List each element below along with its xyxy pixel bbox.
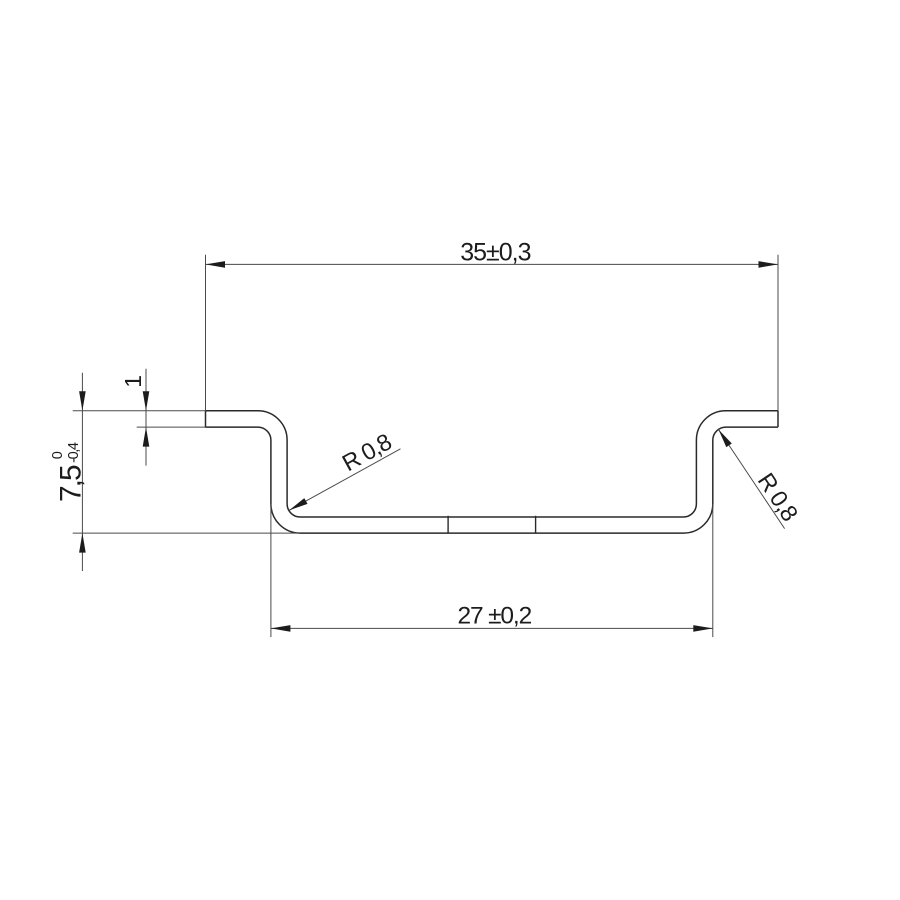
dimension 1 : upper arrowhead (points down at top face) bbox=[143, 391, 150, 411]
slot edge tick left bbox=[447, 516, 449, 534]
dimension 27 ±0,2 : right arrowhead bbox=[693, 625, 713, 632]
svg-text:27 ±0,2: 27 ±0,2 bbox=[458, 603, 532, 630]
dimension 7,5 0/-0,4 : rotated text with tolerance bbox=[50, 442, 88, 502]
dimension 1 : dimension line bbox=[145, 369, 147, 466]
dimension 27 ±0,2 : right extension line bbox=[712, 504, 714, 637]
dimension 35±0,3 : right extension line bbox=[777, 255, 779, 411]
dimension 27 ±0,2 : dimension line bbox=[271, 627, 713, 629]
dimension 35±0,3 : right arrowhead bbox=[759, 261, 779, 268]
dimension 27 ±0,2 : left arrowhead bbox=[271, 625, 291, 632]
radius leader R 0,8 left : leader line bbox=[289, 449, 400, 510]
left flange end cap bbox=[205, 411, 207, 427]
dimension 7,5 0/-0,4 : top extension line bbox=[73, 410, 206, 412]
dimension 7,5 0/-0,4 : bottom extension line bbox=[73, 532, 301, 534]
dimension 7,5 0/-0,4 : dimension line bbox=[81, 373, 83, 571]
dimension 1 (material thickness) : extension line at flange bottom bbox=[137, 426, 206, 428]
right flange end cap bbox=[777, 411, 779, 427]
dimension 7,5 0/-0,4 : lower arrowhead (points up at bottom face) bbox=[79, 533, 86, 553]
radius leader R 0,8 right : leader line bbox=[719, 430, 785, 529]
dimension 35±0,3 : dimension line bbox=[206, 263, 779, 265]
svg-text:-0,4: -0,4 bbox=[66, 442, 82, 463]
svg-text:0: 0 bbox=[50, 451, 66, 459]
dimension 35±0,3 : left extension line bbox=[205, 255, 207, 411]
svg-text:1: 1 bbox=[120, 375, 146, 388]
dimension 1 : rotated text bbox=[120, 375, 146, 388]
radius leader R 0,8 right : arrowhead bbox=[719, 430, 732, 448]
radius leader R 0,8 right : text bbox=[753, 468, 804, 526]
radius leader R 0,8 left : arrowhead bbox=[289, 498, 307, 510]
DIN rail profile outer surface (flange tops, web outer faces, bottom outer) bbox=[206, 411, 779, 517]
DIN rail profile inner surface (flange bottoms, web inner faces, bottom top) bbox=[206, 427, 779, 533]
svg-text:7,5: 7,5 bbox=[55, 465, 88, 502]
dimension 27 ±0,2 : left extension line bbox=[270, 504, 272, 637]
svg-text:R 0,8: R 0,8 bbox=[338, 428, 396, 476]
slot edge tick right bbox=[535, 516, 537, 534]
dimension 7,5 0/-0,4 : upper arrowhead (points down at top face) bbox=[79, 391, 86, 411]
svg-text:R 0,8: R 0,8 bbox=[753, 468, 804, 526]
radius leader R 0,8 left : text bbox=[338, 428, 396, 476]
svg-text:35±0,3: 35±0,3 bbox=[460, 239, 530, 267]
dimension 1 : lower arrowhead (points up at flange bottom) bbox=[143, 427, 150, 447]
dimension 35±0,3 : left arrowhead bbox=[206, 261, 226, 268]
